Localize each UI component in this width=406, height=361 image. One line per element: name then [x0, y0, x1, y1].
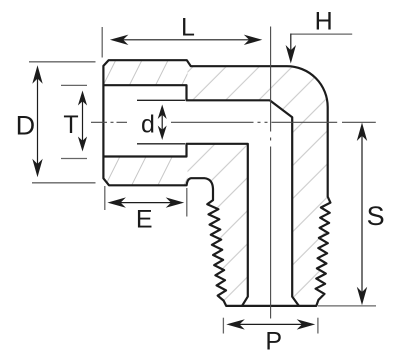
E arrow: [107, 197, 184, 207]
d arrow: [158, 105, 167, 141]
hatched section material of elbow body: [100, 55, 333, 310]
S arrow: [357, 123, 367, 306]
svg-text:P: P: [265, 327, 282, 355]
svg-text:D: D: [16, 110, 36, 140]
T arrow: [78, 91, 87, 152]
T extension lines: [61, 84, 87, 86]
H leader line: [291, 33, 352, 35]
H arrow: [286, 34, 296, 64]
svg-text:S: S: [367, 201, 385, 231]
L extension line: [101, 27, 103, 58]
horizontal centerline: [91, 121, 376, 123]
bore d edge extension stubs: [137, 99, 185, 101]
svg-text:L: L: [181, 13, 195, 41]
S extension lines: [318, 305, 376, 307]
body outer outline: [103, 60, 330, 306]
D extension lines: [29, 61, 96, 63]
inner bore outline (socket + bore d + bottom port): [103, 85, 299, 306]
svg-text:H: H: [315, 8, 333, 36]
svg-text:E: E: [136, 206, 153, 234]
P arrow: [226, 319, 315, 329]
svg-text:d: d: [141, 110, 155, 138]
L arrow: [110, 35, 262, 45]
P tick marks: [222, 318, 224, 334]
svg-text:T: T: [63, 111, 78, 139]
vertical centerline: [270, 27, 272, 319]
D arrow: [32, 65, 42, 177]
E extension lines: [104, 186, 106, 210]
